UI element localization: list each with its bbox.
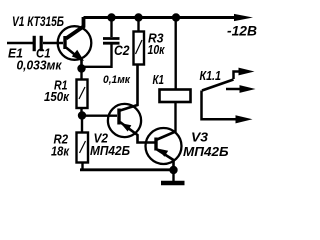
wire V1 emitter to R1 <box>80 67 82 80</box>
transistor V1 emitter arrow <box>72 50 84 61</box>
wire K1 from rail <box>174 18 176 91</box>
svg-text:МП42Б: МП42Б <box>183 144 229 159</box>
contact K1.1 middle fixed wire <box>226 88 242 91</box>
transistor V3 base bar <box>154 138 157 151</box>
arrow -12V supply <box>234 14 253 21</box>
ground <box>161 181 185 186</box>
node emitter V1 / C2 / R1 <box>77 64 85 72</box>
svg-text:150к: 150к <box>44 89 70 104</box>
transistor V3 emitter arrow <box>158 149 169 157</box>
resistor R3 <box>134 32 145 65</box>
wire R3 top <box>137 18 139 33</box>
wire bottom rail <box>80 168 174 171</box>
node top rail K1 <box>172 13 180 21</box>
svg-text:МП42Б: МП42Б <box>90 143 130 158</box>
svg-text:10к: 10к <box>148 42 166 57</box>
arrow K1.1 bottom <box>236 115 253 123</box>
wire R1 to node B <box>80 108 82 116</box>
wire R2 to bottom rail <box>81 163 83 171</box>
node top rail C2 <box>107 13 115 21</box>
resistor R2 hatch <box>80 141 86 153</box>
wire top rail <box>84 16 239 19</box>
resistor R1 <box>77 80 88 109</box>
transistor V1 emitter <box>66 48 82 69</box>
relay coil K1 <box>160 90 191 103</box>
capacitor C1 <box>34 36 41 51</box>
wire K1 to V3 collector <box>174 102 176 132</box>
transistor V1 collector <box>66 17 84 39</box>
svg-text:С2: С2 <box>114 43 130 58</box>
svg-text:V3: V3 <box>191 130 209 145</box>
node R1 R2 V2 base <box>78 111 86 119</box>
ground stub <box>172 170 174 182</box>
capacitor C2 <box>103 39 120 44</box>
svg-text:0,033мк: 0,033мк <box>17 58 63 73</box>
svg-text:18к: 18к <box>51 144 70 159</box>
wire node B to V2 base <box>82 114 117 116</box>
wire C1 to V1 base <box>43 42 63 44</box>
resistor R2 <box>77 133 89 163</box>
arrow K1.1 middle <box>240 85 256 93</box>
transistor V2 collector <box>120 65 138 111</box>
transistor V3 collector <box>157 132 176 140</box>
transistor V3 circle <box>146 128 182 164</box>
transistor V2 circle <box>108 104 141 137</box>
transistor V2 emitter <box>120 122 155 143</box>
transistor V2 emitter arrow <box>121 123 132 132</box>
resistor R1 hatch <box>79 87 85 99</box>
wire node B to R2 <box>81 116 83 134</box>
svg-text:-12В: -12В <box>227 23 257 39</box>
svg-text:К1: К1 <box>153 72 165 87</box>
contact K1.1 upper fixed stub <box>234 72 243 80</box>
node V3 emitter bottom rail <box>169 166 177 174</box>
transistor V3 emitter <box>157 150 174 171</box>
wire C2 top <box>110 18 112 38</box>
transistor V1 circle <box>58 26 92 60</box>
transistor V1 base bar <box>63 36 66 49</box>
resistor R3 hatch <box>136 40 143 54</box>
wire input from E1 to C1 <box>7 42 33 44</box>
node top rail R3 <box>134 13 142 21</box>
svg-text:0,1мк: 0,1мк <box>103 74 131 86</box>
svg-text:V1 КТ315Б: V1 КТ315Б <box>12 13 64 29</box>
transistor V2 base bar <box>117 109 120 125</box>
svg-text:К1.1: К1.1 <box>200 69 222 83</box>
wire C2 bottom to node A <box>82 45 112 67</box>
contact K1.1 movable arm <box>202 80 234 91</box>
arrow K1.1 top <box>239 68 255 76</box>
contact K1.1 pivot wire <box>202 91 241 120</box>
